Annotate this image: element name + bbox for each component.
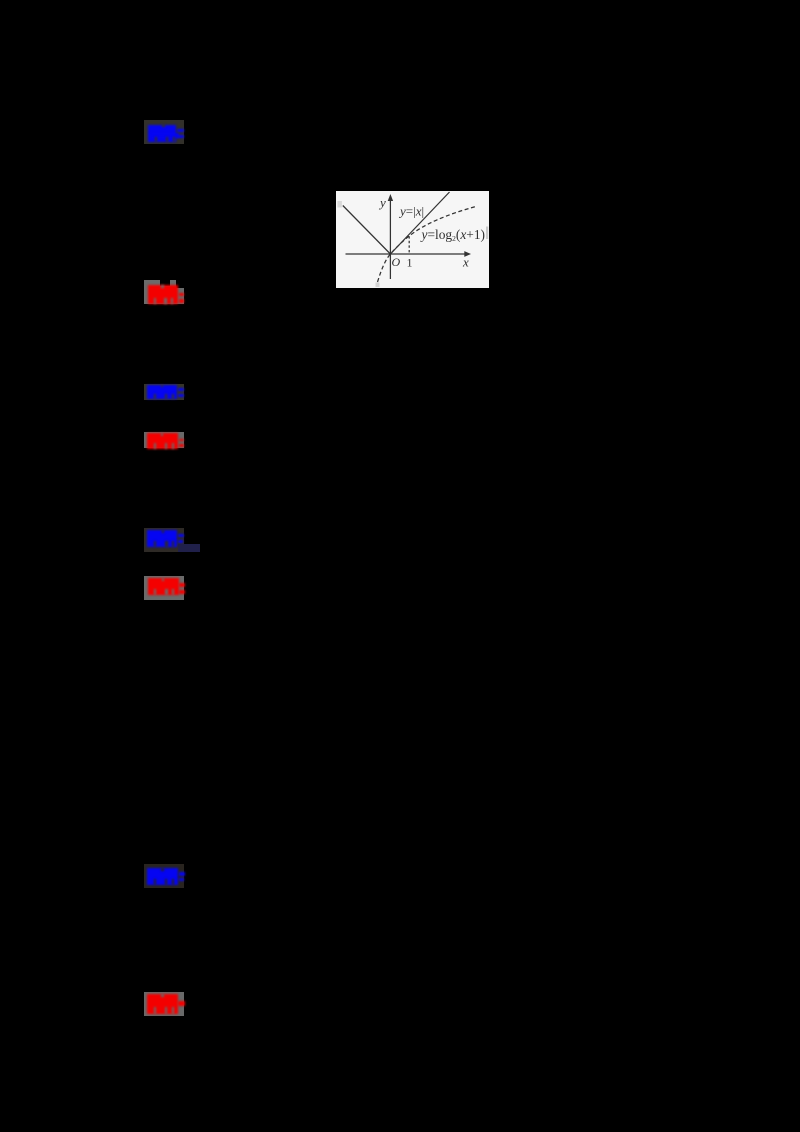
blue label text blob mark3 <box>147 385 177 400</box>
navy underline bar after mark5 <box>178 544 200 551</box>
highlight box mark3 (blue label, dark highlight) <box>144 384 184 400</box>
highlight box mark6 (red label, gray highlight) <box>144 576 184 600</box>
colon of mark5 <box>178 534 184 537</box>
y=log2(x+1) dashed curve <box>378 206 478 282</box>
svg-text:x: x <box>462 255 469 270</box>
highlight box mark5 (blue label, dark highlight) <box>144 528 184 552</box>
dashed vertical line at x=1 <box>408 236 410 254</box>
scan artifact right bar <box>486 227 488 240</box>
colon of mark3 <box>178 388 184 391</box>
svg-text:1: 1 <box>407 256 413 270</box>
svg-text:y=log2(x+1): y=log2(x+1) <box>420 227 486 243</box>
red label text blob mark4 <box>147 433 178 449</box>
x axis <box>346 253 468 255</box>
red label text blob mark8 <box>147 994 178 1014</box>
svg-text:O: O <box>392 255 401 269</box>
colon of mark1 <box>177 129 184 132</box>
y axis arrowhead <box>388 194 393 201</box>
scan artifact bottom-left <box>376 283 380 288</box>
graph svg: axes, y=|x| lines, log2 curve, labels <box>336 191 489 288</box>
colon of mark8 <box>178 1001 185 1006</box>
blue label text blob mark1 <box>148 125 176 142</box>
highlight box mark7 (blue label, dark highlight) <box>144 864 184 888</box>
graph figure white panel <box>336 191 489 288</box>
highlight box mark4 (red label, gray highlight) <box>144 432 184 448</box>
highlight box mark2 (red label, gray highlight, notched top) <box>144 280 184 304</box>
highlight box mark1 (blue label, dark highlight) <box>144 120 184 144</box>
svg-text:y: y <box>378 195 386 210</box>
x axis arrowhead <box>464 251 471 257</box>
colon of mark6 <box>179 583 185 587</box>
colon of mark2 <box>179 293 185 297</box>
blue label text blob mark5 <box>147 530 177 547</box>
colon of mark7 <box>179 872 185 876</box>
red label text blob mark6 <box>148 578 179 595</box>
red label text blob mark2 <box>148 285 178 304</box>
svg-text:y=|x|: y=|x| <box>398 203 424 218</box>
y=|x| right branch <box>390 192 449 254</box>
y axis <box>389 199 391 279</box>
y=|x| left branch <box>343 206 391 255</box>
highlight box mark8 (red label, gray highlight) <box>144 992 184 1016</box>
blue label text blob mark7 <box>147 868 178 885</box>
scan artifact top-left <box>337 201 342 208</box>
colon of mark4 <box>179 439 184 442</box>
